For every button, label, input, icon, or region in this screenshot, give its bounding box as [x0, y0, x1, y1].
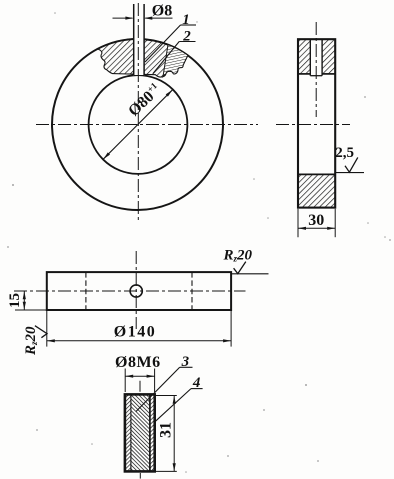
- svg-text:15: 15: [7, 293, 23, 308]
- svg-text:31: 31: [158, 422, 175, 438]
- svg-text:2: 2: [182, 29, 191, 45]
- svg-text:Rz20: Rz20: [23, 326, 39, 356]
- svg-text:3: 3: [181, 354, 190, 370]
- svg-text:Ø8: Ø8: [152, 3, 172, 20]
- svg-text:Ø140: Ø140: [114, 323, 156, 340]
- svg-text:2,5: 2,5: [335, 145, 354, 161]
- svg-text:Ø8M6: Ø8M6: [115, 354, 161, 371]
- svg-text:30: 30: [308, 212, 324, 229]
- svg-text:4: 4: [192, 375, 201, 391]
- svg-text:1: 1: [182, 12, 190, 28]
- svg-text:Rz20: Rz20: [223, 247, 253, 263]
